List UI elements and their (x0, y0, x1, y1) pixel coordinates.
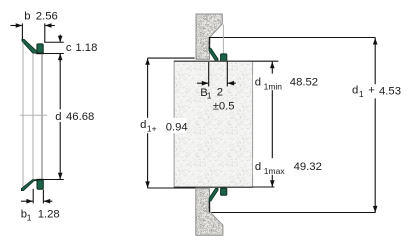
svg-text:d: d (352, 85, 358, 97)
seal upper block (left figure) (36, 44, 44, 54)
dimension b1 left arrow (21, 199, 33, 204)
seal lower block (right figure) (221, 188, 227, 195)
svg-text:c: c (66, 42, 72, 54)
extension line B1 left (208, 62, 210, 86)
dimension b left arrow (11, 23, 23, 28)
label b1 1.28 (21, 209, 60, 223)
label d1max 49.32 (253, 158, 323, 176)
housing upper block (196, 14, 222, 59)
svg-text:0.94: 0.94 (166, 121, 188, 133)
dimension d arrow (58, 173, 63, 180)
mid reference tick (20, 114, 48, 116)
seal upper lip (left figure) (22, 39, 39, 53)
label d1 + 4.53 (351, 84, 403, 99)
svg-text:1.28: 1.28 (38, 209, 60, 221)
dimension d line (59, 54, 61, 180)
shaft top extension line (253, 60, 279, 62)
seal lower block (left figure) (37, 180, 44, 190)
body outline line 2 (32, 54, 34, 179)
label b 2.56 (24, 10, 58, 22)
svg-text:46.68: 46.68 (66, 111, 94, 123)
dimension c upper arrow (58, 35, 63, 43)
svg-text:d: d (255, 77, 261, 89)
extension line B1 right (226, 62, 228, 87)
shaft top edge (174, 60, 253, 62)
body outline line 3 (41, 54, 43, 179)
svg-text:48.52: 48.52 (290, 77, 318, 89)
svg-text:b: b (24, 10, 30, 22)
dimension b right arrow (45, 23, 55, 28)
svg-text:d: d (55, 111, 61, 123)
seal lower lip (left figure) (21, 180, 40, 191)
groove upper wall (208, 37, 210, 50)
dimension b1 right arrow (44, 199, 53, 204)
dimension d1+4.53 line (373, 38, 378, 213)
dimension d1max bottom extension (253, 186, 275, 188)
extension line b right (44, 23, 46, 42)
svg-text:d: d (255, 161, 261, 173)
svg-text:1+: 1+ (147, 124, 157, 134)
svg-text:1.18: 1.18 (75, 42, 97, 54)
extension line b left (21, 23, 23, 39)
shaft block (174, 61, 253, 187)
dimension d1+0.94 bottom extension (148, 187, 196, 189)
extension line c top (44, 41, 64, 43)
svg-text:4.53: 4.53 (379, 85, 401, 97)
dimension B1 left arrow (197, 81, 209, 86)
svg-text:1: 1 (27, 212, 32, 222)
label d 46.68 (53, 109, 97, 123)
svg-text:+: + (368, 84, 375, 96)
svg-text:1: 1 (207, 91, 212, 101)
dimension d1min/d1max line (270, 62, 275, 187)
dimension B1 right arrow (228, 81, 236, 86)
dimension c lower arrow (58, 54, 63, 62)
seal lower lip (right figure) (209, 188, 218, 201)
seal upper block (right figure) (221, 54, 227, 61)
svg-text:±0.5: ±0.5 (213, 101, 235, 113)
extension line c bottom (39, 53, 64, 55)
groove upper line (d1+4.53 top extension) (209, 37, 375, 39)
housing lower block (196, 189, 223, 236)
shaft bottom edge (174, 186, 253, 188)
dimension d1+0.94 top extension (148, 57, 195, 59)
svg-text:2: 2 (217, 86, 223, 98)
svg-text:2.56: 2.56 (36, 10, 58, 22)
label d1min 48.52 (253, 74, 319, 92)
svg-text:d: d (140, 119, 146, 131)
dimension d1+0.94 line (145, 58, 150, 188)
svg-text:1max: 1max (264, 166, 286, 176)
label c 1.18 (66, 42, 98, 54)
label d1+ 0.94 (139, 118, 188, 134)
svg-text:49.32: 49.32 (294, 161, 322, 173)
svg-text:1min: 1min (264, 81, 283, 91)
extension line b1 left (32, 189, 34, 204)
groove lower wall (208, 200, 210, 212)
body outline line 1 (22, 43, 24, 189)
seal upper lip (right figure) (209, 48, 218, 61)
groove lower line (d1+4.53 bottom extension) (211, 212, 375, 214)
extension line d bottom (39, 179, 64, 181)
extension line b1 right (42, 190, 44, 204)
svg-text:1: 1 (359, 89, 364, 99)
groove right gray line (222, 25, 224, 54)
label B1 2 (200, 86, 223, 100)
